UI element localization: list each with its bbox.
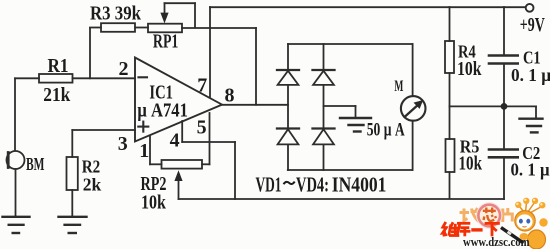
svg-text:RP1: RP1 bbox=[153, 31, 179, 52]
svg-text:21k: 21k bbox=[43, 85, 70, 106]
svg-text:0. 1 μ: 0. 1 μ bbox=[511, 65, 550, 85]
svg-text:5: 5 bbox=[197, 117, 207, 139]
svg-text:1: 1 bbox=[139, 140, 149, 162]
svg-text:0. 1 μ: 0. 1 μ bbox=[511, 160, 550, 180]
svg-text:50 μ A: 50 μ A bbox=[367, 121, 405, 141]
svg-text:10k: 10k bbox=[141, 192, 166, 213]
svg-text:3: 3 bbox=[118, 133, 128, 155]
svg-text:VD4:: VD4: bbox=[296, 173, 329, 197]
svg-text:M: M bbox=[394, 78, 403, 95]
svg-text:μ A741: μ A741 bbox=[137, 101, 188, 122]
svg-text:10k: 10k bbox=[457, 59, 482, 80]
svg-text:BM: BM bbox=[26, 154, 45, 174]
svg-text:R1: R1 bbox=[48, 56, 69, 77]
svg-text:10k: 10k bbox=[459, 154, 483, 175]
svg-text:IN4001: IN4001 bbox=[332, 173, 387, 197]
svg-text:VD1: VD1 bbox=[256, 173, 282, 197]
svg-text:2: 2 bbox=[119, 58, 129, 80]
svg-text:www.dzsc.com: www.dzsc.com bbox=[463, 234, 530, 249]
svg-text:2k: 2k bbox=[83, 175, 102, 195]
svg-text:7: 7 bbox=[197, 75, 207, 97]
svg-text:R3 39k: R3 39k bbox=[90, 3, 141, 24]
svg-text:+9V: +9V bbox=[520, 15, 545, 36]
svg-text:4: 4 bbox=[170, 130, 180, 152]
svg-text:8: 8 bbox=[225, 85, 235, 107]
svg-text:R2: R2 bbox=[82, 156, 101, 176]
